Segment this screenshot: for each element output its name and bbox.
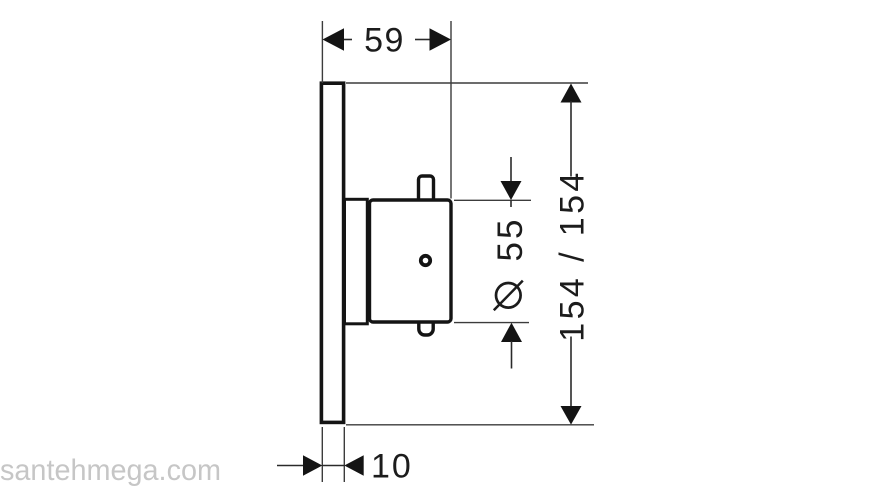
extension line left of dim 10	[321, 427, 323, 482]
dimension line 10 leader	[277, 465, 304, 467]
dimension line 55 upper overshoot	[510, 200, 512, 207]
dimension text 55	[491, 217, 530, 262]
arrowhead 55 top	[501, 181, 522, 200]
dimension line 154 lower shaft	[570, 337, 572, 408]
extension line bottom of dim 154	[346, 424, 594, 426]
flange sleeve	[345, 199, 368, 323]
svg-text:59: 59	[364, 22, 405, 60]
extension line right of dim 10	[343, 427, 345, 482]
dimension line 154 upper shaft	[570, 101, 572, 177]
svg-text:santehmega.com: santehmega.com	[0, 454, 221, 487]
dimension line 59 right stub	[415, 39, 431, 41]
arrowhead 59 right	[430, 28, 452, 50]
svg-text:10: 10	[371, 448, 413, 486]
svg-text:55: 55	[491, 217, 530, 262]
svg-text:154 / 154: 154 / 154	[553, 169, 591, 341]
dimension text 154 / 154	[553, 169, 591, 341]
extension line bottom of dim 55	[454, 322, 529, 324]
bottom nub	[419, 314, 433, 335]
arrowhead 10 right	[344, 455, 363, 476]
diameter symbol	[494, 281, 523, 311]
arrowhead 154 bottom	[561, 406, 582, 425]
arrowhead 10 left	[303, 455, 322, 476]
dimension line 55 lower shaft	[511, 341, 513, 369]
extension line left of dim 59	[321, 21, 323, 83]
arrowhead 55 bottom	[501, 323, 522, 342]
top nub (stop button)	[419, 176, 434, 206]
dimension line 55 upper shaft	[510, 157, 512, 182]
arrowhead 59 left	[323, 28, 345, 50]
extension line right of dim 59	[450, 21, 452, 199]
extension line top of dim 154	[346, 82, 588, 84]
valve body	[370, 200, 452, 322]
dimension line 59 left stub	[343, 39, 352, 41]
extension line top of dim 55	[454, 199, 531, 201]
arrowhead 154 top	[561, 84, 582, 103]
dimension line 10 middle segment	[322, 465, 344, 467]
screw hole circle	[421, 256, 430, 265]
wall plate	[321, 83, 343, 422]
